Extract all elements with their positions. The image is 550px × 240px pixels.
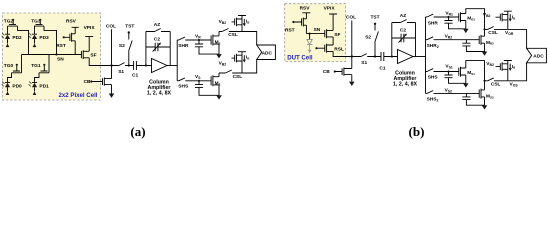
transistor VB2 bias (b top) — [483, 12, 508, 21]
transistor SF — [81, 50, 96, 59]
svg-text:TST: TST — [125, 23, 134, 29]
ground (MS1) — [463, 83, 469, 87]
wire COL rail — [111, 29, 113, 78]
capacitor C2 (variable) — [146, 37, 170, 52]
transistor CB — [84, 78, 112, 94]
transistor RST — [56, 33, 75, 55]
svg-text:VR2: VR2 — [445, 33, 453, 39]
switch SHR — [177, 37, 211, 49]
ground (MS2) — [482, 105, 488, 109]
supply VPIX (b) — [324, 5, 338, 30]
node CSL join bottom — [483, 80, 485, 82]
svg-text:PD3: PD3 — [39, 35, 49, 41]
switch S2 (b) — [365, 24, 378, 57]
wire to ADC lower — [242, 60, 257, 74]
transistor VB2 bias top — [219, 18, 242, 27]
wire SN (b) — [306, 33, 324, 35]
svg-text:2x2 Pixel Cell: 2x2 Pixel Cell — [59, 92, 98, 99]
svg-text:1, 2, 4, 8X: 1, 2, 4, 8X — [147, 90, 172, 96]
photodiode PD2 — [2, 30, 22, 47]
capacitor CS2 — [462, 93, 484, 105]
photodiode PD0 — [2, 82, 22, 95]
svg-text:M8: M8 — [215, 80, 221, 86]
svg-text:RST: RST — [285, 28, 295, 34]
svg-text:CSL: CSL — [488, 30, 498, 36]
svg-text:VB2: VB2 — [483, 12, 491, 18]
svg-text:SN: SN — [314, 27, 321, 33]
transistor TG3 — [31, 18, 56, 54]
svg-text:SF: SF — [90, 52, 96, 58]
svg-text:IB: IB — [512, 64, 516, 70]
svg-text:CB: CB — [84, 79, 91, 85]
svg-text:TG1: TG1 — [31, 63, 41, 69]
wire COL rail (b) — [351, 21, 353, 69]
svg-text:S1: S1 — [361, 60, 367, 66]
svg-text:TG2: TG2 — [4, 18, 14, 24]
svg-text:MR1: MR1 — [467, 15, 475, 21]
wire to ADC upper — [242, 32, 257, 46]
svg-text:MS2: MS2 — [486, 94, 494, 100]
svg-text:C1: C1 — [132, 73, 138, 79]
svg-text:C2: C2 — [400, 28, 406, 34]
svg-text:SF: SF — [334, 32, 340, 38]
svg-text:RSL: RSL — [334, 46, 344, 52]
transistor TG0 — [4, 55, 22, 83]
svg-text:PD0: PD0 — [12, 84, 22, 90]
transistor TG2 — [4, 18, 29, 54]
svg-text:VR1: VR1 — [445, 10, 453, 16]
svg-text:COL: COL — [106, 23, 116, 29]
transistor SF (b) — [325, 29, 341, 45]
supply VPIX — [84, 25, 96, 51]
transistor VB2 bias bottom — [219, 54, 242, 67]
switch S2 — [119, 33, 132, 66]
switch SHS — [426, 69, 459, 81]
node COL/S1 junction — [110, 64, 112, 66]
svg-text:SN: SN — [57, 57, 64, 63]
svg-text:MS1: MS1 — [467, 70, 475, 76]
switch SHS — [177, 78, 211, 90]
svg-text:VB2: VB2 — [219, 60, 227, 66]
svg-text:MR2: MR2 — [486, 40, 494, 46]
switch S1 — [112, 63, 134, 76]
svg-text:(b): (b) — [409, 124, 425, 139]
node VS — [198, 80, 200, 82]
current source bias (b bottom): VDD — [504, 61, 512, 81]
capacitor CR — [195, 40, 219, 54]
svg-text:DUT Cell: DUT Cell — [287, 54, 313, 61]
transistor MS1 — [459, 67, 476, 84]
transistor TG1 — [31, 55, 49, 83]
ground (b CB) — [349, 82, 355, 86]
svg-text:TG0: TG0 — [4, 63, 14, 69]
ground — [216, 54, 222, 58]
svg-text:CSL: CSL — [233, 74, 243, 80]
svg-text:SHS: SHS — [428, 74, 439, 80]
svg-text:CSL: CSL — [491, 81, 501, 87]
ADC block (b) — [527, 48, 547, 63]
node SN — [55, 53, 57, 55]
svg-text:RSV: RSV — [300, 5, 311, 11]
switch SHS2 — [426, 91, 480, 103]
svg-text:SHS: SHS — [178, 84, 189, 90]
wire SF source to COL — [89, 58, 111, 66]
current IB arrow (b top) — [509, 14, 517, 21]
wire amp output rail — [176, 40, 178, 81]
wire to ADC upper (b) — [508, 29, 527, 48]
capacitor C2 variable (b) — [392, 28, 416, 43]
transistor MS2 — [479, 81, 494, 105]
svg-text:C2: C2 — [154, 37, 160, 43]
transistor M8 — [211, 73, 221, 95]
diode (antenna) in DUT cell — [307, 34, 312, 54]
capacitor CS1 — [444, 72, 465, 84]
svg-text:(a): (a) — [130, 124, 145, 139]
ground (MR1) — [463, 29, 469, 33]
capacitor C1 — [132, 61, 152, 79]
transistor MR2 — [479, 29, 494, 51]
capacitor CR2 — [462, 40, 484, 52]
current source bias (b top): VDD — [504, 11, 512, 29]
svg-text:IB: IB — [246, 55, 250, 61]
svg-text:SHR: SHR — [178, 43, 189, 49]
switch CSL (bottom) — [219, 70, 242, 80]
wire SN bus — [22, 54, 82, 56]
svg-text:AZ: AZ — [154, 22, 160, 28]
svg-text:VOS: VOS — [510, 81, 519, 87]
node CSL join top — [483, 28, 485, 30]
svg-text:VPIX: VPIX — [324, 5, 336, 11]
wire feedback verticals (b) — [392, 23, 416, 57]
capacitor CS — [195, 81, 219, 96]
svg-text:VS2: VS2 — [445, 87, 452, 93]
switch AZ (b) — [392, 13, 416, 22]
current source bias top: VDD — [238, 16, 246, 32]
photodiode PD1 — [29, 82, 49, 95]
svg-text:IB: IB — [512, 14, 516, 20]
current IB arrow (b bottom) — [509, 64, 517, 71]
svg-text:ADC: ADC — [262, 50, 273, 56]
capacitor CR1 — [444, 17, 465, 29]
node COL/S1 junction (b) — [351, 55, 353, 57]
svg-text:VS1: VS1 — [445, 63, 452, 69]
DUT cell dashed box — [285, 4, 346, 62]
svg-text:RST: RST — [56, 43, 66, 49]
supply RSV — [66, 19, 79, 34]
node S2 junction (b) — [374, 55, 376, 57]
svg-text:VB2: VB2 — [486, 61, 494, 67]
node S2 junction — [128, 64, 130, 66]
svg-text:ADC: ADC — [533, 54, 544, 60]
current source bias bottom: VDD — [238, 52, 246, 73]
transistor RST (b) — [285, 18, 306, 34]
svg-text:S2: S2 — [119, 43, 125, 49]
current IB arrow bottom — [243, 55, 251, 63]
svg-text:TST: TST — [370, 15, 379, 21]
svg-text:1, 2, 4, 8X: 1, 2, 4, 8X — [393, 81, 418, 87]
wire amp output rail (b) — [425, 17, 427, 93]
transistor MR1 — [459, 12, 476, 29]
switch SHR2 — [426, 37, 480, 49]
svg-text:SHR2: SHR2 — [427, 43, 439, 49]
node VR1 — [447, 16, 449, 18]
svg-text:VB2: VB2 — [219, 19, 227, 25]
switch AZ — [146, 22, 170, 31]
ground — [109, 94, 115, 98]
svg-text:S1: S1 — [118, 69, 124, 75]
op-amp U1 column amplifier — [147, 59, 177, 97]
node VS1 — [447, 70, 449, 72]
transistor VB2 bias (b bottom) — [486, 61, 508, 71]
ground — [216, 95, 222, 99]
wire MR1 drain over-route — [466, 9, 485, 30]
capacitor C1 (b) — [379, 52, 397, 71]
svg-text:PD1: PD1 — [39, 84, 49, 90]
svg-text:SHR: SHR — [428, 20, 439, 26]
ground (MR2) — [482, 52, 488, 56]
svg-text:VR: VR — [195, 33, 201, 39]
svg-text:CB: CB — [323, 69, 330, 75]
switch SHR — [426, 14, 459, 26]
switch CSL (top) — [219, 29, 242, 38]
svg-text:S2: S2 — [365, 35, 371, 41]
switch CSL (b bottom) — [485, 78, 508, 87]
svg-text:VOR: VOR — [505, 30, 514, 36]
transistor RSL — [315, 44, 351, 57]
svg-text:RSV: RSV — [66, 19, 77, 25]
svg-text:VS: VS — [195, 74, 201, 80]
svg-text:VPIX: VPIX — [84, 25, 96, 31]
transistor M6 — [211, 32, 221, 55]
current IB arrow top — [243, 19, 251, 27]
node VR — [198, 39, 200, 41]
wire MS1 drain over-route — [466, 61, 485, 81]
2x2 pixel cell dashed box — [3, 13, 101, 100]
supply RSV (b) — [300, 5, 311, 18]
op-amp U2 column amplifier (b) — [393, 50, 426, 88]
ADC block (a) — [257, 45, 276, 60]
wire to ADC lower (b) — [508, 63, 527, 81]
photodiode PD3 — [29, 30, 49, 47]
transistor CB (b) — [323, 68, 352, 82]
svg-text:COL: COL — [346, 15, 356, 21]
svg-text:IB: IB — [246, 19, 250, 25]
switch CSL (b top) — [485, 27, 508, 37]
switch S1 (b) — [352, 54, 381, 67]
svg-text:AZ: AZ — [400, 13, 406, 19]
svg-text:M6: M6 — [215, 40, 221, 46]
wire feedback verticals — [146, 32, 170, 66]
svg-text:CSL: CSL — [228, 32, 238, 38]
svg-text:SHS2: SHS2 — [427, 96, 439, 102]
svg-text:PD2: PD2 — [12, 35, 22, 41]
svg-text:C1: C1 — [379, 65, 385, 71]
